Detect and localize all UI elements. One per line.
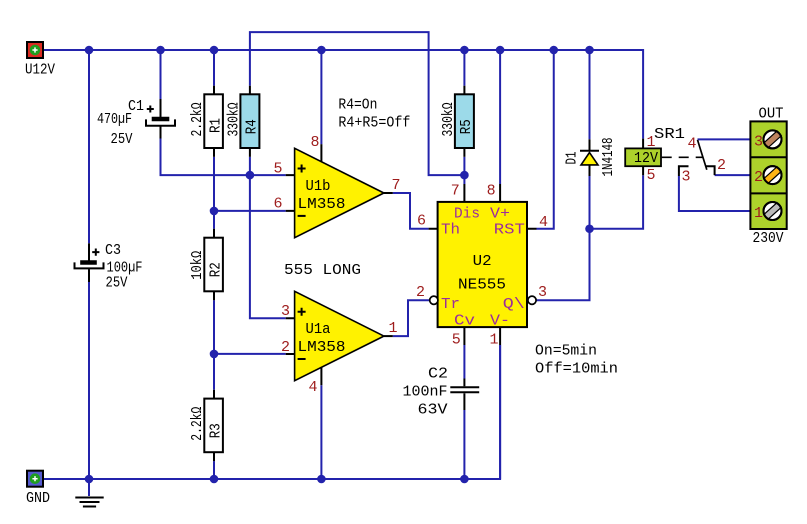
svg-text:R2: R2 — [208, 262, 225, 277]
relay switch pin3 contact — [679, 166, 689, 176]
connector U12V — [27, 42, 43, 58]
svg-text:1N4148: 1N4148 — [600, 138, 617, 177]
svg-text:C2: C2 — [428, 366, 448, 383]
node junction row17 — [210, 350, 219, 359]
svg-text:R4+R5=Off: R4+R5=Off — [338, 115, 410, 132]
node junction row6 — [210, 207, 219, 216]
svg-text:2: 2 — [717, 157, 726, 174]
terminal screw 2 — [764, 166, 782, 184]
svg-text:2: 2 — [281, 339, 290, 356]
node junction V+ rail — [496, 46, 505, 55]
relay switch arm pin4 — [698, 140, 707, 170]
wire switch pin2 to terminal 2 — [715, 174, 751, 176]
wire D1 node to coil pin5 — [590, 175, 644, 229]
resistor R4 — [240, 86, 259, 157]
svg-text:330kΩ: 330kΩ — [226, 103, 243, 137]
relay mechanical link — [662, 156, 703, 158]
node junction R5 rail — [460, 46, 469, 55]
wire left vertical to GND — [88, 50, 90, 479]
svg-text:7: 7 — [451, 183, 460, 200]
node junction R4 row5 — [246, 171, 255, 180]
wire U1b pin8 column — [320, 50, 322, 144]
wire row17 to U1a pin2 — [214, 353, 286, 355]
svg-text:D1: D1 — [564, 152, 581, 165]
svg-text:63V: 63V — [418, 402, 448, 419]
node junction U12V rail — [85, 46, 94, 55]
op-amp U1a — [286, 291, 393, 385]
svg-text:12V: 12V — [634, 150, 658, 167]
wire U1b out to 555 Th — [393, 193, 429, 229]
wire U1a pin4 column — [320, 385, 322, 479]
svg-text:Th: Th — [441, 222, 460, 239]
wire R4 bottom down to U1a pin3 — [250, 157, 286, 318]
terminal screw 1 — [764, 202, 782, 220]
wire switch pin4 to terminal 3 — [698, 138, 751, 140]
node junction GND — [85, 475, 94, 484]
resistor R1 — [204, 86, 223, 157]
svg-text:Cv: Cv — [454, 313, 475, 330]
svg-text:Off=10min: Off=10min — [535, 361, 618, 378]
connector GND — [27, 471, 43, 487]
svg-text:R4=On: R4=On — [338, 97, 377, 114]
svg-text:SR1: SR1 — [654, 126, 685, 143]
svg-text:On=5min: On=5min — [535, 343, 597, 360]
wire R5 column top — [463, 50, 465, 86]
wire R1 top — [213, 50, 215, 86]
svg-text:R4: R4 — [244, 119, 261, 134]
wire row6 to U1b pin6 — [214, 210, 286, 212]
connector OUT terminal block — [750, 121, 786, 229]
svg-text:R1: R1 — [208, 118, 225, 133]
svg-text:3: 3 — [538, 284, 547, 301]
wire C2 to bottom rail — [463, 410, 465, 479]
svg-text:8: 8 — [310, 134, 319, 151]
svg-text:3: 3 — [281, 303, 290, 320]
svg-text:2: 2 — [416, 284, 425, 301]
svg-text:Tr: Tr — [441, 296, 460, 313]
svg-text:3: 3 — [754, 134, 763, 151]
svg-text:RST: RST — [494, 222, 525, 239]
svg-text:4: 4 — [308, 379, 317, 396]
wire R1 to R2 with node row6 — [213, 157, 215, 229]
svg-text:Dis: Dis — [454, 206, 480, 223]
svg-text:Q\: Q\ — [503, 296, 525, 313]
svg-text:OUT: OUT — [759, 106, 784, 123]
svg-text:U12V: U12V — [25, 62, 55, 79]
wire bottom rail — [44, 345, 500, 479]
op-amp U1b — [286, 144, 393, 238]
svg-text:1: 1 — [754, 205, 763, 222]
node junction D1 rail — [585, 46, 594, 55]
svg-text:5: 5 — [273, 161, 282, 178]
svg-text:555 LONG: 555 LONG — [284, 262, 361, 279]
svg-text:25V: 25V — [106, 275, 128, 292]
svg-text:2.2kΩ: 2.2kΩ — [189, 407, 206, 441]
svg-text:1: 1 — [389, 320, 398, 337]
ground symbol — [75, 479, 103, 507]
resistor R5 — [455, 86, 474, 157]
svg-text:5: 5 — [647, 167, 656, 184]
relay coil SR1 — [625, 139, 661, 176]
node junction U1a pin4 rail — [317, 475, 326, 484]
node junction R3 bottom rail — [210, 475, 219, 484]
resistor R2 — [204, 229, 223, 300]
wire R2 to R3 with node row17 — [213, 300, 215, 390]
wire top rail — [44, 50, 643, 139]
wire switch pin3 to terminal 1 — [679, 176, 751, 211]
node junction Dis row5 — [460, 171, 469, 180]
svg-text:1: 1 — [489, 332, 498, 349]
svg-text:4: 4 — [539, 214, 548, 231]
svg-text:NE555: NE555 — [458, 277, 506, 294]
wire RST up to rail — [537, 50, 554, 229]
svg-text:25V: 25V — [111, 131, 133, 148]
svg-text:6: 6 — [273, 196, 282, 213]
svg-text:230V: 230V — [753, 230, 784, 247]
svg-text:1: 1 — [647, 134, 656, 151]
svg-text:V-: V- — [490, 313, 510, 330]
node junction C2 rail — [460, 475, 469, 484]
node junction RST rail — [549, 46, 558, 55]
capacitor C3 — [75, 243, 104, 282]
svg-text:8: 8 — [487, 183, 496, 200]
svg-text:U1a: U1a — [306, 321, 331, 338]
wire Q out to D1 node — [536, 229, 589, 301]
svg-text:2.2kΩ: 2.2kΩ — [189, 103, 206, 137]
wire V- column — [499, 345, 501, 479]
wire Cv to C2 — [463, 345, 465, 379]
node junction C1 rail — [156, 46, 165, 55]
svg-text:3: 3 — [682, 169, 691, 186]
svg-text:330kΩ: 330kΩ — [440, 103, 457, 137]
svg-text:7: 7 — [392, 177, 401, 194]
svg-text:R5: R5 — [458, 119, 475, 134]
wire R4 jog over rail to Dis node — [250, 32, 465, 175]
node junction U1b pin8 rail — [317, 46, 326, 55]
svg-text:C3: C3 — [105, 242, 121, 259]
svg-text:6: 6 — [417, 213, 426, 230]
svg-text:100nF: 100nF — [403, 384, 448, 401]
timer U2 NE555 — [429, 184, 537, 345]
svg-text:LM358: LM358 — [298, 339, 346, 356]
wire C1 column — [161, 50, 286, 175]
svg-text:2: 2 — [754, 169, 763, 186]
svg-text:5: 5 — [452, 332, 461, 349]
wire D1 column — [589, 50, 591, 229]
svg-text:U1b: U1b — [306, 178, 331, 195]
wire U1a out to 555 Tr — [393, 300, 430, 336]
terminal screw 3 — [764, 130, 782, 148]
capacitor C1 — [146, 99, 175, 139]
svg-text:10kΩ: 10kΩ — [189, 251, 206, 280]
diode D1 — [580, 139, 599, 176]
relay switch pin2 contact — [706, 166, 715, 175]
capacitor C2 — [450, 379, 479, 411]
node junction D1 anode — [585, 224, 594, 233]
svg-text:U2: U2 — [473, 253, 492, 270]
svg-text:470µF: 470µF — [97, 111, 132, 128]
svg-text:R3: R3 — [208, 423, 225, 438]
svg-text:4: 4 — [688, 136, 697, 153]
svg-text:V+: V+ — [490, 206, 510, 223]
wire R5 bottom to Dis node — [463, 157, 465, 184]
wire V+ column — [499, 50, 501, 184]
svg-text:LM358: LM358 — [298, 196, 346, 213]
wire R3 bottom — [213, 461, 215, 479]
node junction R1 rail — [210, 46, 219, 55]
resistor R3 — [204, 390, 223, 461]
svg-text:GND: GND — [26, 490, 50, 507]
